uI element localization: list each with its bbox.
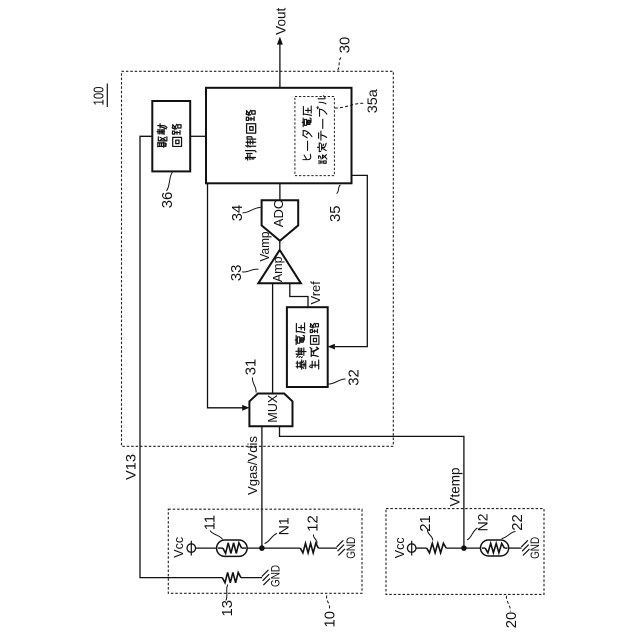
svg-text:100: 100 bbox=[92, 87, 108, 106]
leader 34 bbox=[243, 207, 261, 212]
dashed box 35a heater voltage setting table ヒータ電圧設定テーブル bbox=[295, 97, 335, 176]
svg-text:MUX: MUX bbox=[266, 394, 280, 422]
svg-text:30: 30 bbox=[338, 37, 354, 53]
resistor 12 bbox=[300, 543, 318, 553]
leader 36 bbox=[167, 172, 173, 191]
svg-text:N1: N1 bbox=[276, 517, 292, 535]
svg-text:22: 22 bbox=[510, 514, 526, 530]
block 35 control circuit 制御回路 bbox=[206, 88, 352, 184]
op-amp 33 Amp triangle bbox=[258, 250, 301, 283]
wire Vtemp from MUX to node N2 bbox=[280, 426, 464, 548]
node N2 bbox=[461, 545, 467, 551]
leader 32 bbox=[329, 379, 346, 384]
svg-text:31: 31 bbox=[244, 359, 260, 375]
svg-text:35: 35 bbox=[328, 206, 344, 222]
svg-text:Vcc: Vcc bbox=[393, 537, 407, 558]
wire control circuit to block 32 with arrow bbox=[335, 175, 368, 346]
leader to box 30 (dashed) bbox=[337, 58, 341, 71]
svg-text:36: 36 bbox=[160, 192, 176, 208]
leader 20 (dashed) bbox=[506, 596, 510, 612]
heater element 11 (resistor in stadium) bbox=[217, 540, 248, 556]
wire MUX select from control circuit with arrow bbox=[208, 184, 244, 408]
ground (resistor 13) bbox=[262, 570, 269, 577]
svg-text:GND: GND bbox=[344, 537, 358, 559]
wire ADC to control circuit bbox=[279, 184, 281, 201]
svg-text:13: 13 bbox=[220, 600, 236, 616]
svg-text:GND: GND bbox=[528, 537, 542, 559]
svg-text:11: 11 bbox=[202, 515, 218, 530]
wire Amp to MUX bbox=[272, 283, 274, 393]
wire 11 to N1 to resistor 12 bbox=[247, 547, 300, 549]
svg-text:32: 32 bbox=[347, 369, 363, 385]
wire ADC-Amp junction bbox=[279, 241, 281, 250]
wire resistor 21 to N2 to element 22 bbox=[446, 547, 480, 549]
svg-text:Amp: Amp bbox=[271, 256, 285, 282]
node N1 bbox=[259, 545, 265, 551]
svg-text:Vgas/Vdis: Vgas/Vdis bbox=[245, 436, 260, 495]
wire Vcc to heater 11 bbox=[196, 547, 217, 549]
leader 33 bbox=[242, 269, 259, 272]
ADC 34 pentagon bbox=[262, 200, 299, 241]
leader 12 bbox=[313, 535, 317, 544]
svg-text:33: 33 bbox=[229, 265, 245, 281]
wire element 22 to GND bbox=[509, 547, 522, 549]
leader 31 bbox=[252, 378, 256, 393]
leader N2 bbox=[467, 528, 478, 540]
svg-text:35a: 35a bbox=[365, 89, 380, 114]
wire Vgas/Vdis from MUX to node N1 bbox=[261, 426, 263, 548]
dashed box 10 gas sensor element bbox=[168, 509, 362, 593]
svg-text:10: 10 bbox=[323, 611, 339, 627]
wire resistor 13 to GND bbox=[241, 577, 262, 579]
leader 35a (dashed) bbox=[335, 103, 364, 108]
wire resistor 12 to GND bbox=[318, 547, 337, 549]
leader 35 bbox=[337, 185, 341, 194]
svg-text:12: 12 bbox=[306, 515, 322, 531]
svg-text:21: 21 bbox=[418, 515, 434, 531]
svg-text:Vout: Vout bbox=[274, 8, 289, 35]
ground (box 10 right) bbox=[337, 540, 344, 547]
leader 22 bbox=[502, 532, 516, 539]
svg-text:Vtemp: Vtemp bbox=[447, 467, 462, 506]
svg-text:Vref: Vref bbox=[308, 281, 323, 305]
svg-text:ADC: ADC bbox=[271, 200, 286, 227]
ground (box 20) bbox=[521, 540, 528, 547]
wire Vout with arrow bbox=[279, 44, 281, 88]
svg-text:V13: V13 bbox=[123, 454, 138, 480]
leader 10 (dashed) bbox=[327, 596, 330, 610]
outer dashed box 30 (sensor control device) bbox=[122, 71, 394, 446]
thermistor element 22 (resistor in stadium) bbox=[481, 540, 509, 556]
dashed box 20 temperature sensor bbox=[386, 509, 544, 595]
block 36 drive circuit 駆動回路 bbox=[152, 101, 190, 171]
resistor 13 bbox=[222, 572, 241, 582]
MUX 31 bbox=[249, 394, 292, 427]
leader 21 bbox=[427, 530, 432, 541]
wire V13: drive circuit left, down to resistor 13 bbox=[140, 136, 222, 577]
svg-text:20: 20 bbox=[504, 612, 520, 628]
wire drive to control bbox=[190, 135, 206, 137]
leader 11 bbox=[210, 531, 223, 540]
leader N1 bbox=[265, 534, 278, 544]
svg-text:GND: GND bbox=[269, 565, 283, 587]
svg-text:Vcc: Vcc bbox=[172, 537, 186, 558]
wire Vcc to resistor 21 bbox=[416, 547, 427, 549]
wire Vref from reference block to Amp bbox=[290, 283, 308, 307]
leader 13 bbox=[226, 585, 228, 601]
resistor 21 bbox=[427, 543, 447, 553]
block 32 reference voltage generator 基準電圧生成回路 bbox=[287, 307, 328, 387]
